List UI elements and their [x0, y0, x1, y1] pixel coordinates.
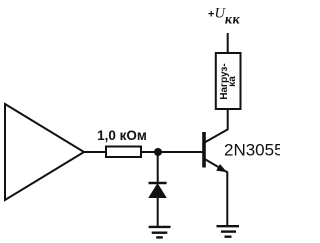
diode D1 triangle: [149, 184, 166, 198]
emitter wire down to ground: [226, 172, 228, 227]
svg-text:ка: ка: [227, 76, 238, 87]
wire from +Ukk supply to load: [227, 33, 229, 53]
load label Nagruzka (rotated): [219, 63, 238, 99]
transistor Q1 base bar: [202, 132, 206, 168]
diode D1 cathode bar: [149, 182, 167, 185]
buffer amplifier triangle: [5, 104, 84, 200]
resistor R1 body: [106, 147, 141, 158]
svg-text:2N3055: 2N3055: [224, 140, 280, 159]
load resistor box: [216, 53, 241, 109]
ground symbol under emitter: [217, 226, 240, 237]
wire from node down to diode: [157, 152, 159, 184]
svg-text:+Uкк: +Uкк: [208, 6, 241, 28]
emitter arrowhead: [216, 164, 227, 172]
wire from buffer output to resistor: [84, 151, 107, 153]
wire from resistor to transistor base: [141, 151, 204, 153]
collector wire up to load: [227, 109, 229, 130]
junction node dot: [154, 148, 162, 156]
svg-text:1,0 кОм: 1,0 кОм: [97, 128, 147, 143]
ground symbol under diode: [149, 227, 171, 238]
transistor Q1 collector diagonal: [205, 129, 229, 142]
wire from diode anode down to ground: [157, 197, 159, 227]
transistor Q1 emitter diagonal: [205, 159, 227, 172]
